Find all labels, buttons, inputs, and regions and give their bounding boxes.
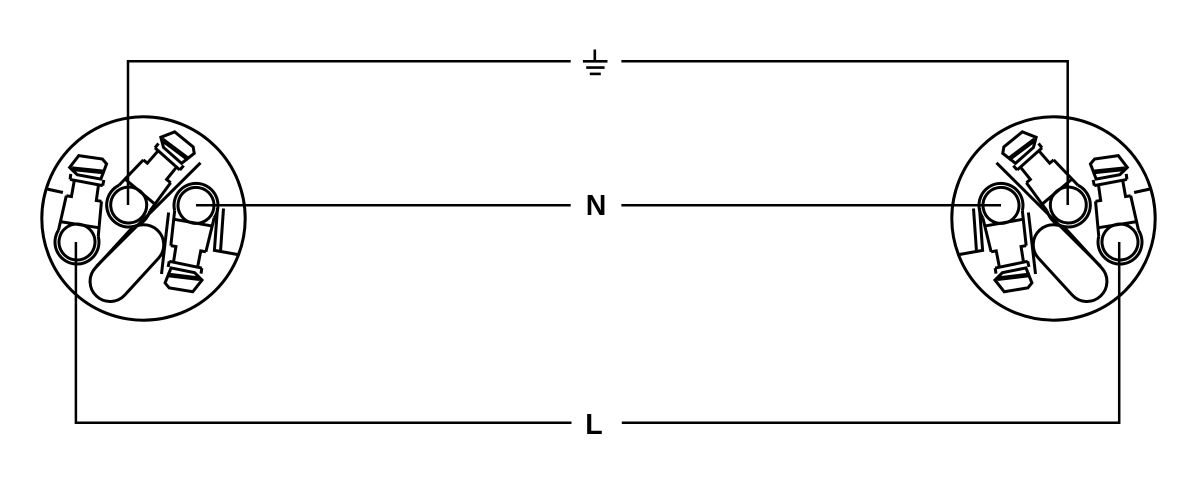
- svg-text:N: N: [586, 190, 607, 222]
- neutral wire right segment: [621, 204, 1001, 207]
- svg-text:L: L: [585, 409, 602, 441]
- live wire right segment: [622, 242, 1119, 423]
- ground symbol: [583, 50, 608, 74]
- live wire left segment: [76, 242, 572, 423]
- left connector (plug rear view): [42, 117, 245, 320]
- neutral wire left segment: [196, 204, 571, 207]
- earth wire left segment: [128, 61, 571, 205]
- right connector (plug rear view, mirrored): [952, 117, 1155, 320]
- earth wire right segment: [621, 61, 1067, 205]
